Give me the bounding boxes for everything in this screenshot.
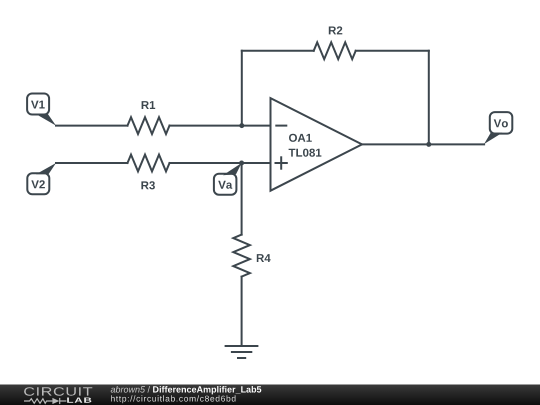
footer text: url — [111, 395, 235, 403]
logo resistor zigzag — [24, 399, 52, 404]
node V1 — [27, 94, 56, 126]
wire R3 to op-amp non-inverting input — [170, 162, 271, 164]
junction Va — [239, 161, 244, 166]
junction inverting input — [239, 123, 244, 128]
ground — [226, 346, 258, 358]
wire R1 to op-amp inverting input — [170, 125, 271, 127]
wire feedback top right — [356, 50, 429, 52]
junction output — [426, 142, 431, 147]
wire R4 to ground — [241, 277, 243, 346]
logo CIRCUIT LAB wordmark — [24, 387, 92, 404]
resistor R2 — [314, 26, 356, 59]
resistor R4 — [233, 235, 270, 277]
op-amp OA1 — [271, 98, 363, 191]
wire V1 to R1 — [56, 125, 128, 127]
wire op-amp output — [362, 143, 484, 145]
node Vo — [484, 112, 512, 144]
resistor R3 — [128, 155, 170, 190]
wire feedback up from inverting node — [241, 51, 243, 126]
footer bar — [0, 385, 540, 405]
resistor R1 — [128, 101, 170, 134]
wire V2 to R3 — [56, 162, 128, 164]
logo diode — [52, 398, 59, 404]
node V2 — [27, 163, 56, 194]
wire Va node down to R4 — [241, 163, 243, 235]
wire feedback top left — [242, 50, 314, 52]
footer text: user / title — [111, 386, 262, 394]
wire feedback down to output — [428, 51, 430, 145]
node Va — [214, 163, 242, 195]
